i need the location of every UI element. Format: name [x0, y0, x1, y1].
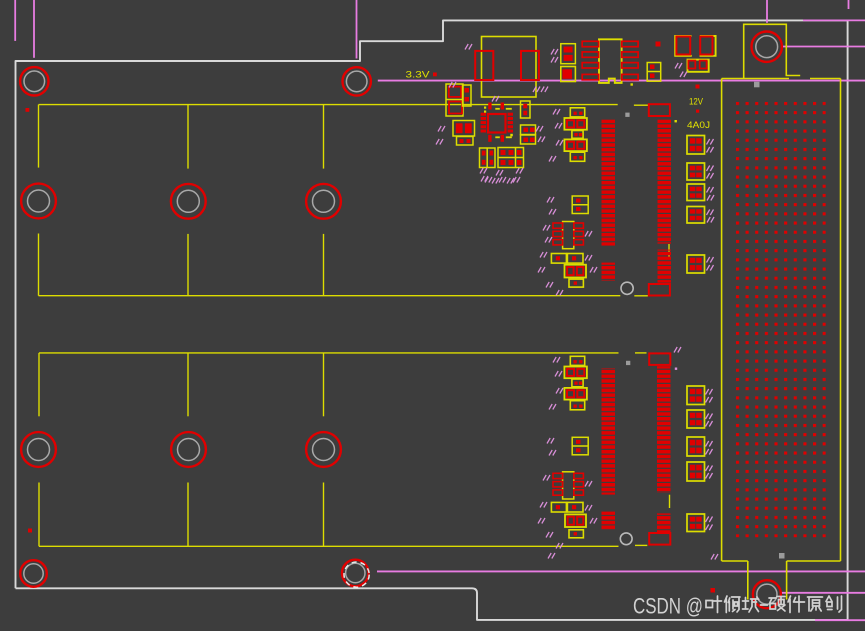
- capacitor C5: [561, 67, 576, 82]
- capacitor C10: [564, 139, 587, 151]
- connector J1 yellow dot: [675, 120, 677, 122]
- resistor R4: [521, 125, 536, 135]
- standoff hole bay1 mid: [171, 184, 206, 219]
- resistor R1 vertical: [463, 85, 472, 106]
- red fiducial dot C: [433, 73, 437, 77]
- capacitor C29: [687, 514, 705, 532]
- mounting hole H3 bottom-left: [20, 560, 47, 587]
- capacitor C11 2cell: [572, 196, 588, 214]
- resistor R11: [551, 254, 566, 264]
- capacitor C12: [565, 265, 587, 278]
- standoff hole bay1 left: [21, 184, 56, 219]
- edge connector J3 bottom mounting tab: [748, 561, 787, 600]
- connector J1 right pad row: [658, 120, 672, 244]
- resistor R14: [570, 356, 584, 365]
- red fiducial dot E: [696, 110, 699, 113]
- red fiducial dot B: [26, 108, 30, 112]
- standoff hole bay1 right: [306, 184, 341, 219]
- trace net 3.3V horizontal: [378, 80, 865, 82]
- resistor R2: [457, 137, 474, 146]
- resistor R16: [570, 401, 584, 410]
- capacitor C28: [687, 462, 705, 481]
- capacitor C3 dual vertical: [480, 148, 496, 168]
- IC U4 SOT23-6 footprint: [553, 222, 583, 249]
- mounting hole H6 bottom-right tab: [753, 580, 781, 608]
- connector J2 outline segments: [635, 353, 670, 546]
- connector J2 polarization hole: [620, 533, 632, 545]
- connector J2 right pad row lower: [657, 513, 671, 533]
- resistor R12: [567, 254, 583, 264]
- resistor R3 vertical: [521, 101, 531, 118]
- trace bottom tab to edge: [782, 592, 865, 594]
- capacitor C22: [687, 184, 705, 201]
- capacitor C6: [647, 63, 661, 82]
- resistor R10: [570, 152, 584, 161]
- connector J1 pin1 fiducial: [625, 113, 629, 117]
- capacitor C23: [687, 207, 705, 224]
- trace bottom horizontal: [377, 570, 865, 572]
- resistor R8: [570, 108, 584, 117]
- connector J2 left pad row lower: [602, 512, 616, 530]
- mounting hole H1 top-left: [20, 67, 48, 95]
- connector J2 pin1 fiducial: [626, 361, 630, 365]
- connector CN1 pad left: [475, 51, 493, 80]
- trace stub top-right corner: [848, 0, 850, 9]
- capacitor C14: [564, 388, 587, 400]
- IC U1 QFN footprint: [481, 103, 513, 142]
- connector J1 left pad row: [602, 120, 616, 246]
- watermark CJK glyphs: [706, 596, 842, 613]
- standoff hole bay2 left: [21, 432, 56, 467]
- mounting hole H2 top-mid: [343, 67, 371, 95]
- edge connector J3 top mounting tab: [744, 24, 801, 78]
- resistor R5: [521, 135, 536, 144]
- resistor R15: [572, 379, 583, 387]
- red fiducial dot F: [28, 529, 32, 533]
- svg-text:CSDN @: CSDN @: [633, 594, 703, 619]
- capacitor C7 large: [675, 36, 692, 56]
- edge connector J3 body outline: [722, 79, 841, 562]
- standoff hole bay2 right: [306, 432, 341, 467]
- red fiducial dot D: [696, 85, 700, 89]
- capacitor C16: [565, 514, 586, 527]
- IC U2 footprint: [498, 148, 524, 168]
- silkscreen hatch marks: [436, 44, 718, 560]
- connector CN1 pad right: [521, 51, 539, 80]
- trace stub tab top: [766, 0, 768, 23]
- capacitor C15 2cell: [572, 437, 588, 455]
- svg-text:4A0J: 4A0J: [687, 120, 710, 131]
- connector J2 magenta dot: [675, 368, 677, 370]
- capacitor C24: [687, 255, 705, 273]
- mounting hole H5 top-right tab: [752, 32, 782, 62]
- capacitor C20: [687, 136, 705, 155]
- connector J2 left pad row: [602, 368, 616, 495]
- standoff hole bay2 mid: [171, 432, 206, 467]
- connector J2 right pad row: [657, 366, 671, 493]
- IC U5 SOT23-6 footprint: [553, 472, 583, 499]
- red fiducial dot A: [656, 42, 661, 47]
- trace top edge overlay: [803, 19, 865, 21]
- capacitor C21: [687, 163, 705, 180]
- connector CN1 shell outline: [482, 37, 537, 98]
- svg-text:3.3V: 3.3V: [406, 70, 431, 81]
- IC U3 SOIC-8 footprint: [582, 39, 638, 85]
- M.2 SSD bay 2 outline with standoff dividers: [39, 353, 619, 546]
- connector J1 outline segments: [634, 105, 669, 296]
- trace stub top-left A: [14, 0, 16, 41]
- capacitor C8 large: [700, 36, 716, 56]
- capacitor C25: [687, 386, 705, 405]
- resistor R9: [572, 131, 583, 139]
- capacitor C9: [564, 118, 587, 130]
- trace top tab to edge: [783, 46, 865, 48]
- edge connector J3 fiducial top: [754, 82, 760, 88]
- M.2 SSD bay 1 outline with standoff dividers: [39, 105, 621, 296]
- resistor R13: [569, 279, 583, 287]
- connector J1 right pad row lower: [658, 250, 672, 283]
- capacitor C4: [561, 44, 576, 64]
- trace bottom-right overlay: [815, 619, 865, 621]
- edge connector J3 pin grid: [736, 102, 826, 537]
- resistor R6 R7 pair: [688, 60, 709, 72]
- resistor R18: [567, 502, 583, 512]
- capacitor C27: [687, 437, 705, 456]
- capacitor C26: [687, 410, 705, 428]
- svg-text:12V: 12V: [689, 97, 703, 107]
- connector J2 top pad: [649, 353, 670, 365]
- red fiducial dot G: [711, 588, 716, 593]
- connector J1 top pad: [649, 104, 670, 116]
- edge connector J3 fiducial bottom: [779, 553, 785, 559]
- capacitor C13: [564, 367, 587, 379]
- trace stub top-left B: [33, 0, 35, 58]
- mounting hole H4 bottom-mid: [342, 560, 369, 587]
- connector J1 bottom pad: [649, 284, 670, 296]
- capacitor C2: [453, 121, 475, 137]
- trace stub hole H2: [356, 0, 358, 59]
- resistor R19: [569, 530, 583, 538]
- connector J1 left pad row lower: [602, 263, 616, 281]
- connector J2 bottom pad: [649, 533, 670, 545]
- resistor R17: [551, 502, 566, 512]
- capacitor C1 stacked pads: [446, 84, 463, 116]
- connector J1 polarization hole: [621, 282, 633, 294]
